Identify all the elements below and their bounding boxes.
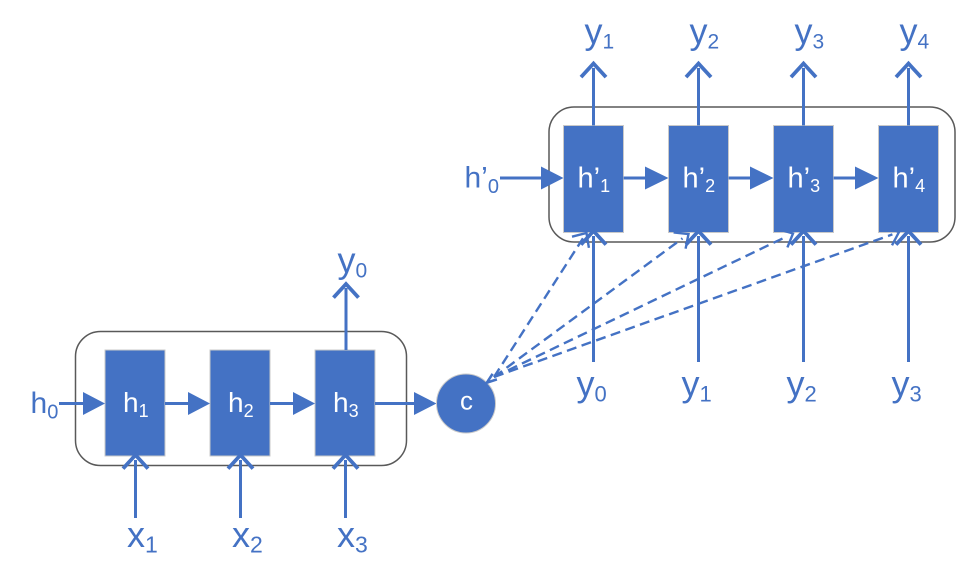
dashed context line c to h'3: [494, 229, 793, 377]
arrow x3 to h3: [333, 455, 358, 518]
cell h'1: [564, 126, 624, 233]
arrow h3 to c: [375, 392, 437, 415]
arrow y0 input to h'1: [581, 231, 606, 362]
encoder box: [76, 332, 407, 466]
cell h2: [210, 350, 270, 456]
arrow h2 to h3: [270, 392, 315, 415]
arrow h0 to h1: [59, 392, 105, 415]
context node c: [437, 374, 496, 433]
svg-text:y0: y0: [338, 240, 368, 283]
arrowhead into c: [487, 374, 497, 383]
svg-text:x1: x1: [127, 514, 158, 558]
svg-text:y3: y3: [892, 363, 922, 406]
arrow h'3 to h'4: [834, 167, 879, 190]
decoder box: [549, 107, 955, 242]
svg-text:x2: x2: [232, 514, 263, 558]
arrow h'2 up to y2: [686, 64, 711, 126]
svg-text:c: c: [460, 386, 473, 416]
arrow x2 to h2: [228, 455, 253, 518]
arrow h'0 to h'1: [500, 167, 564, 190]
dashed context line c to h'4: [494, 226, 899, 377]
arrow h'3 up to y3: [791, 64, 816, 126]
svg-text:y1: y1: [682, 363, 712, 406]
arrow h'1 to h'2: [624, 167, 669, 190]
arrow h1 to h2: [165, 392, 210, 415]
cell h'3: [774, 126, 834, 233]
arrow h'2 to h'3: [729, 167, 774, 190]
cell h'2: [669, 126, 729, 233]
arrow h3 up to y0: [334, 284, 359, 350]
svg-text:y3: y3: [795, 11, 825, 54]
cell h3: [315, 350, 375, 456]
arrow h'4 up to y4: [896, 64, 921, 126]
dashed context line c to h'1: [494, 233, 589, 377]
svg-text:h0: h0: [31, 387, 59, 424]
svg-text:h’0: h’0: [465, 162, 499, 199]
svg-text:y1: y1: [585, 11, 615, 54]
dashed context line c to h'2: [494, 232, 689, 377]
svg-text:y2: y2: [690, 11, 720, 54]
arrow x1 to h1: [123, 455, 148, 518]
svg-text:y2: y2: [787, 363, 817, 406]
svg-text:x3: x3: [337, 514, 368, 558]
svg-text:y0: y0: [577, 363, 607, 406]
cell h'4: [879, 126, 939, 233]
cell h1: [105, 350, 165, 456]
arrow y1 input to h'2: [686, 231, 711, 362]
arrow y3 input to h'4: [896, 231, 921, 362]
svg-text:y4: y4: [900, 11, 930, 54]
arrow h'1 up to y1: [581, 64, 606, 126]
arrow y2 input to h'3: [791, 231, 816, 362]
